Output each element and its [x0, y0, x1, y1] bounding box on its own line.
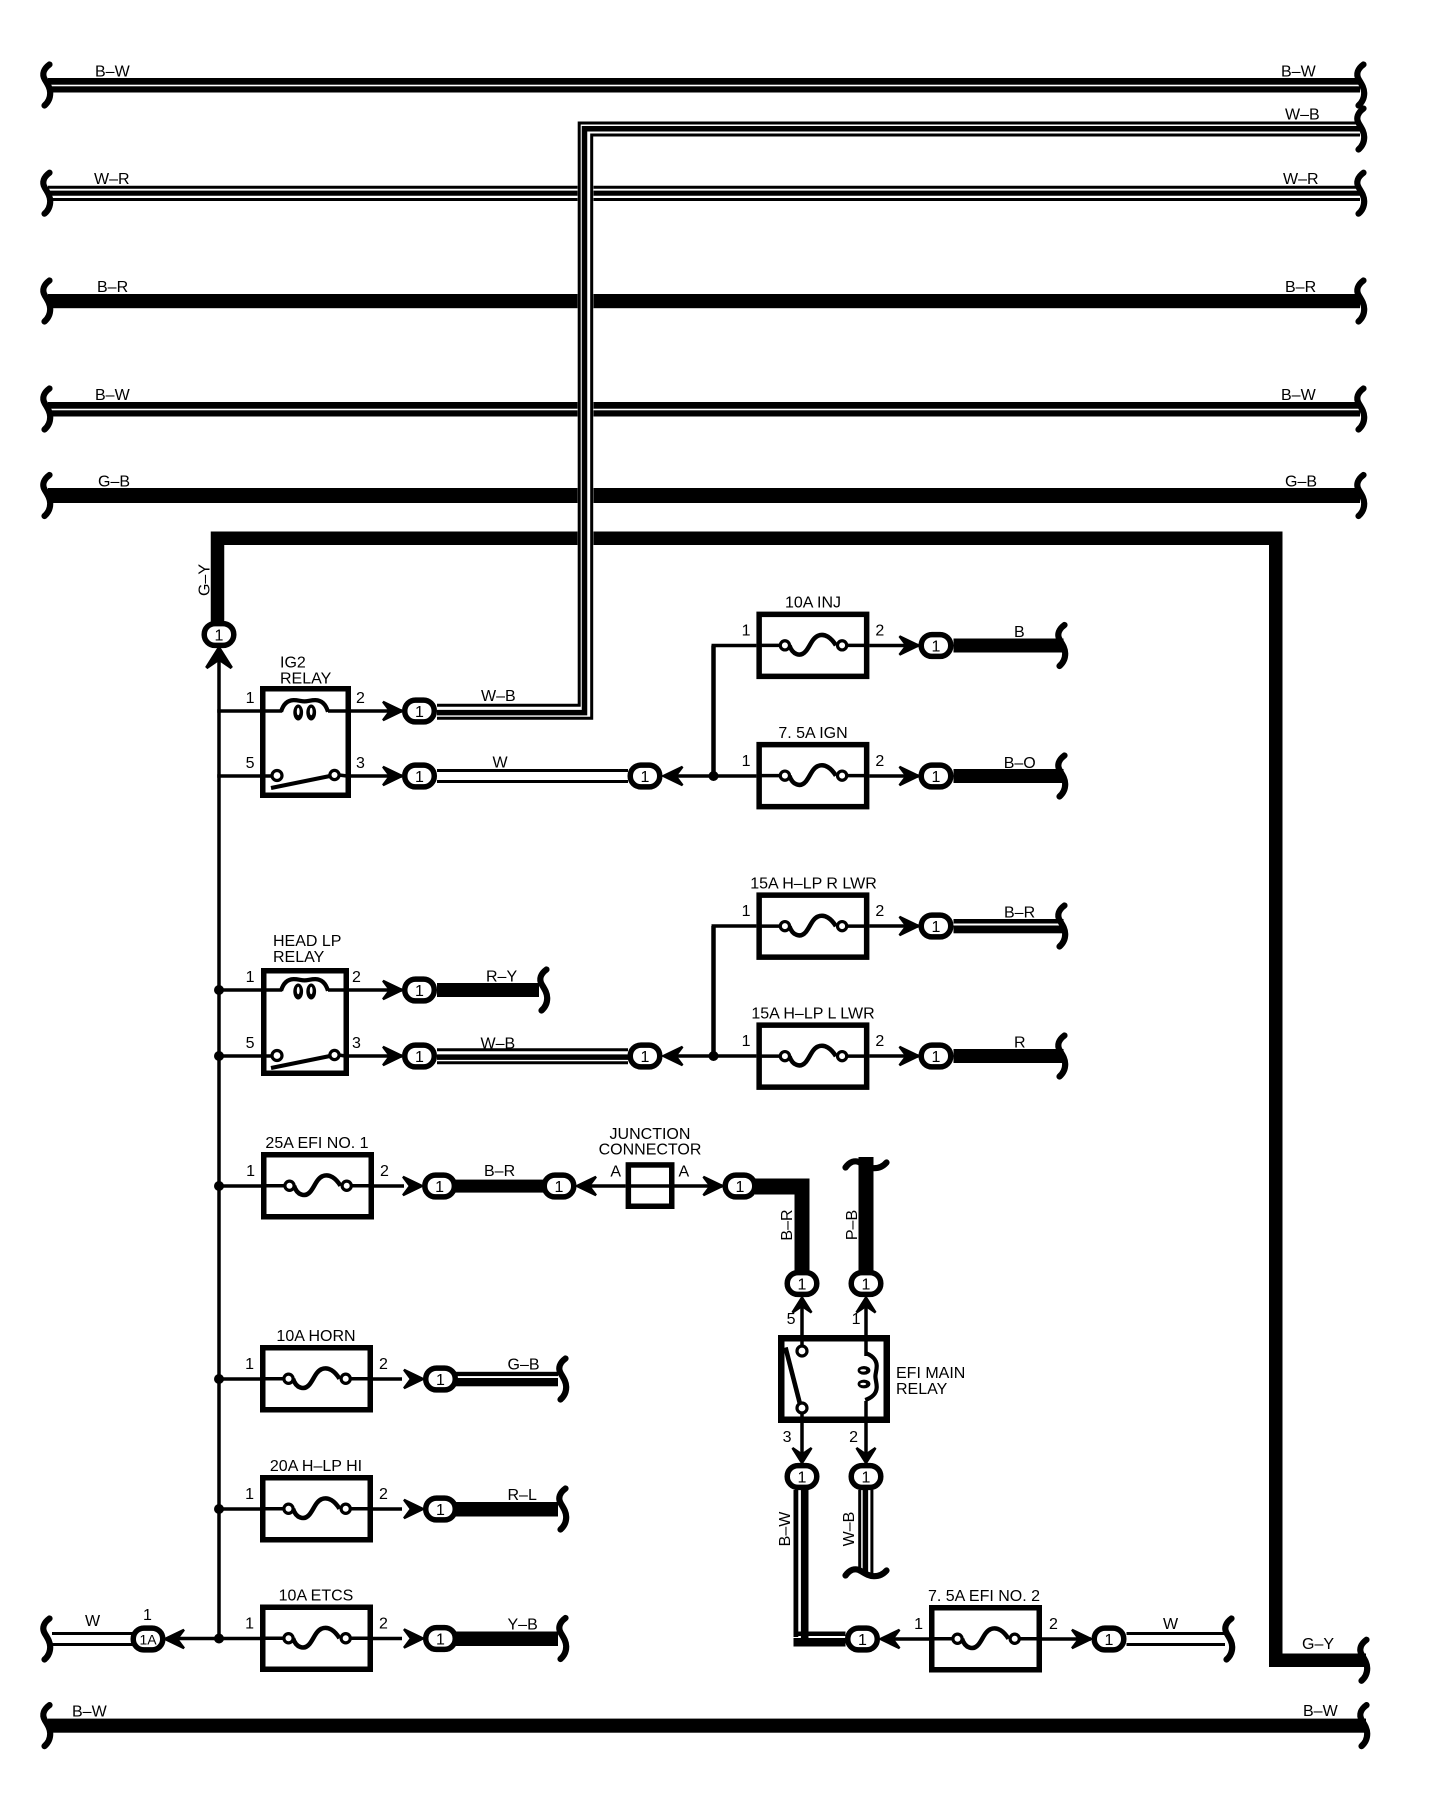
svg-text:W–B: W–B	[481, 1036, 516, 1053]
svg-text:B–O: B–O	[1004, 755, 1036, 772]
svg-text:3: 3	[356, 755, 365, 772]
svg-text:1: 1	[245, 1356, 254, 1373]
svg-text:1: 1	[245, 1616, 254, 1633]
svg-text:2: 2	[1049, 1616, 1058, 1633]
svg-text:G–Y: G–Y	[1302, 1636, 1334, 1653]
svg-text:3: 3	[352, 1035, 361, 1052]
svg-text:20A H–LP HI: 20A H–LP HI	[270, 1458, 362, 1475]
svg-text:W: W	[85, 1613, 101, 1630]
svg-text:10A HORN: 10A HORN	[276, 1328, 355, 1345]
svg-text:2: 2	[352, 969, 361, 986]
svg-text:10A INJ: 10A INJ	[785, 595, 841, 612]
svg-text:1: 1	[742, 623, 751, 640]
svg-text:1A: 1A	[139, 1632, 157, 1648]
svg-text:B–W: B–W	[72, 1704, 108, 1721]
svg-text:1: 1	[742, 903, 751, 920]
svg-text:B–W: B–W	[1281, 387, 1317, 404]
svg-text:B–W: B–W	[95, 387, 131, 404]
svg-text:3: 3	[783, 1429, 792, 1446]
svg-text:10A ETCS: 10A ETCS	[279, 1588, 354, 1605]
svg-text:25A EFI NO. 1: 25A EFI NO. 1	[265, 1135, 368, 1152]
svg-text:R: R	[1014, 1035, 1026, 1052]
svg-text:W–B: W–B	[481, 688, 516, 705]
svg-text:2: 2	[356, 690, 365, 707]
svg-text:1: 1	[246, 1163, 255, 1180]
svg-text:JUNCTION: JUNCTION	[610, 1126, 691, 1143]
svg-text:2: 2	[380, 1163, 389, 1180]
svg-text:2: 2	[875, 753, 884, 770]
svg-text:1: 1	[143, 1607, 152, 1624]
svg-text:B–W: B–W	[1281, 64, 1317, 81]
svg-text:1: 1	[742, 753, 751, 770]
svg-text:2: 2	[849, 1429, 858, 1446]
svg-text:G–B: G–B	[1285, 474, 1317, 491]
svg-text:W: W	[1163, 1616, 1179, 1633]
svg-text:G–Y: G–Y	[197, 564, 214, 596]
svg-text:B–R: B–R	[779, 1209, 796, 1240]
svg-text:2: 2	[379, 1616, 388, 1633]
svg-text:B–R: B–R	[484, 1163, 515, 1180]
svg-text:2: 2	[875, 623, 884, 640]
svg-text:Y–B: Y–B	[508, 1617, 538, 1634]
svg-text:CONNECTOR: CONNECTOR	[599, 1142, 702, 1159]
svg-text:RELAY: RELAY	[280, 671, 332, 688]
svg-text:1: 1	[914, 1616, 923, 1633]
svg-text:R–L: R–L	[508, 1487, 537, 1504]
svg-text:1: 1	[245, 1486, 254, 1503]
svg-text:RELAY: RELAY	[273, 949, 325, 966]
svg-text:15A H–LP R LWR: 15A H–LP R LWR	[750, 875, 877, 892]
svg-text:B–R: B–R	[97, 279, 128, 296]
svg-text:7. 5A EFI NO. 2: 7. 5A EFI NO. 2	[928, 1588, 1040, 1605]
svg-text:P–B: P–B	[844, 1210, 861, 1240]
svg-text:2: 2	[875, 903, 884, 920]
svg-text:IG2: IG2	[280, 655, 306, 672]
svg-text:5: 5	[787, 1311, 796, 1328]
svg-text:5: 5	[246, 1035, 255, 1052]
svg-text:1: 1	[852, 1311, 861, 1328]
svg-text:G–B: G–B	[98, 474, 130, 491]
svg-text:1: 1	[246, 969, 255, 986]
svg-text:7. 5A IGN: 7. 5A IGN	[778, 725, 847, 742]
svg-text:W–R: W–R	[94, 171, 130, 188]
svg-text:W: W	[493, 755, 509, 772]
svg-text:HEAD LP: HEAD LP	[273, 933, 341, 950]
svg-text:B–W: B–W	[1303, 1703, 1339, 1720]
svg-text:G–B: G–B	[508, 1357, 540, 1374]
svg-text:B–R: B–R	[1004, 905, 1035, 922]
svg-text:1: 1	[246, 690, 255, 707]
svg-text:W–B: W–B	[841, 1512, 858, 1547]
svg-text:B: B	[1014, 624, 1025, 641]
svg-text:A: A	[610, 1164, 621, 1181]
svg-text:A: A	[679, 1164, 690, 1181]
svg-text:2: 2	[875, 1033, 884, 1050]
svg-text:2: 2	[379, 1486, 388, 1503]
svg-text:EFI MAIN: EFI MAIN	[896, 1365, 965, 1382]
svg-text:B–W: B–W	[777, 1511, 794, 1547]
svg-text:2: 2	[379, 1356, 388, 1373]
svg-text:R–Y: R–Y	[486, 969, 517, 986]
svg-text:W–R: W–R	[1283, 171, 1319, 188]
svg-text:5: 5	[246, 755, 255, 772]
svg-text:1: 1	[742, 1033, 751, 1050]
svg-text:15A H–LP L LWR: 15A H–LP L LWR	[751, 1005, 874, 1022]
svg-text:B–R: B–R	[1285, 279, 1316, 296]
svg-text:W–B: W–B	[1285, 107, 1320, 124]
svg-text:RELAY: RELAY	[896, 1381, 948, 1398]
svg-text:B–W: B–W	[95, 64, 131, 81]
